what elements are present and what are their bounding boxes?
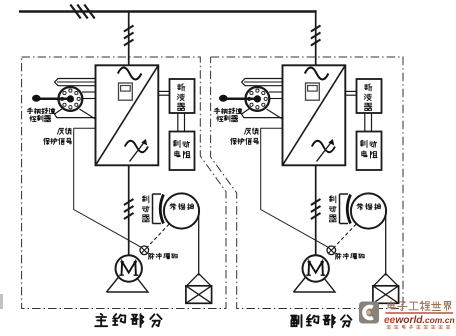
logo swirl <box>364 307 373 319</box>
AC input sine symbol U1 (main hook) <box>118 68 142 80</box>
label: protection signal U2 (aux hook) <box>231 138 259 144</box>
cable wire a U1 (main hook) <box>57 81 96 83</box>
cable flag upper U2 (aux hook) <box>242 79 283 86</box>
connector pins U2 (aux hook) <box>248 89 268 109</box>
encoder coupling dashed line U2 (aux hook) <box>333 211 369 249</box>
hook block box U2 (aux hook) <box>373 286 399 304</box>
label: protection signal U1 (main hook) <box>44 138 72 144</box>
three-phase marks on bus <box>70 5 94 19</box>
label: brake U2 (aux hook) <box>329 196 336 222</box>
three-phase marks on motor feed U2 (aux hook) <box>311 199 321 219</box>
inverter diagonal divider U1 (main hook) <box>96 65 159 165</box>
connector center pin U2 (aux hook) <box>254 96 260 102</box>
wire: inverter to chopper (double) U1 (main hook) <box>158 91 169 95</box>
motor letter M U1 (main hook) <box>119 262 138 275</box>
svg-text:eeworld.com.cn: eeworld.com.cn <box>384 315 455 326</box>
hook hanger triangle U2 (aux hook) <box>374 274 398 286</box>
cable flag lower U1 (main hook) <box>55 108 97 117</box>
label: braking resistor U1 (main hook) <box>173 140 190 158</box>
cable wire diagonal U1 (main hook) <box>80 109 97 120</box>
cable wire b U2 (aux hook) <box>269 91 283 93</box>
caption: main hook section <box>95 314 161 327</box>
label: brake U1 (main hook) <box>142 196 149 222</box>
label: feedback U1 (main hook) <box>58 128 72 134</box>
braking resistor box U2 (aux hook) <box>357 132 382 171</box>
label: chopper U1 (main hook) <box>177 84 185 111</box>
wire: feedback/protection signal path U1 (main hook) <box>74 128 142 247</box>
wire: drop to aux-hook inverter <box>315 10 317 65</box>
chopper unit box U2 (aux hook) <box>357 79 382 113</box>
terminal dot of speed controller U2 (aux hook) <box>219 95 228 102</box>
scan artifact at left edge <box>0 294 3 309</box>
motor stand U1 (main hook) <box>107 266 149 292</box>
logo slogan row <box>387 325 450 329</box>
motor stand U2 (aux hook) <box>294 266 336 292</box>
connector pins U1 (main hook) <box>61 89 81 109</box>
inverter/VFD box U2 (aux hook) <box>283 65 346 165</box>
connector plug circle U1 (main hook) <box>59 87 83 111</box>
wire: controller lead U2 (aux hook) <box>223 98 257 101</box>
cable wire b U1 (main hook) <box>82 91 96 93</box>
logo red underline <box>386 312 454 313</box>
motor letter M U2 (aux hook) <box>306 262 325 275</box>
label: braking resistor U2 (aux hook) <box>360 140 377 158</box>
logo square <box>359 302 379 324</box>
brake shoe arc U2 (aux hook) <box>347 195 350 224</box>
wire: three-phase power bus <box>19 10 317 12</box>
brake bracket U2 (aux hook) <box>340 194 349 224</box>
wire: rope from drum U1 (main hook) <box>198 211 200 276</box>
label: hoist shaft U2 (aux hook) <box>357 203 381 210</box>
hoist drum circle U2 (aux hook) <box>351 193 386 228</box>
brake shoe arc U1 (main hook) <box>160 195 163 224</box>
three-phase marks on motor feed U1 (main hook) <box>124 199 134 219</box>
inverter/VFD box U1 (main hook) <box>96 65 159 165</box>
motor circle U1 (main hook) <box>116 255 142 281</box>
pulse encoder circle U1 (main hook) <box>140 246 149 255</box>
wire: drop to main-hook inverter <box>128 12 130 66</box>
cable flag upper U1 (main hook) <box>55 79 96 86</box>
encoder coupling dashed line U1 (main hook) <box>146 211 182 249</box>
label: hand-lever speed controller U1 (main hook) <box>27 108 55 122</box>
wire: rope from drum U2 (aux hook) <box>385 211 387 276</box>
wire: chopper to resistor (double) U1 (main hook) <box>178 113 185 132</box>
terminal dot of speed controller U1 (main hook) <box>32 95 41 102</box>
cable wire diagonal U2 (aux hook) <box>267 109 284 120</box>
enclosure: main hook section (dashed) <box>22 57 226 309</box>
brake bracket U1 (main hook) <box>153 194 162 224</box>
cable flag lower U2 (aux hook) <box>242 108 284 117</box>
wire: inverter output to motor U1 (main hook) <box>128 165 130 255</box>
wire: inverter output to motor U2 (aux hook) <box>315 165 317 255</box>
hoist drum circle U1 (main hook) <box>164 193 199 228</box>
three-phase marks on aux drop <box>311 26 321 46</box>
caption: aux hook section <box>291 315 351 327</box>
inverter diagonal divider U2 (aux hook) <box>283 65 346 165</box>
wire: inverter to chopper (double) U2 (aux hook) <box>345 91 356 95</box>
three-phase marks on main drop <box>124 26 134 46</box>
keypad panel on inverter U2 (aux hook) <box>306 83 320 100</box>
cable wire center U2 (aux hook) <box>269 98 283 100</box>
label: pulse encoder U1 (main hook) <box>148 253 177 259</box>
wire: controller lead U1 (main hook) <box>36 98 70 101</box>
logo chinese title <box>388 301 451 311</box>
pulse encoder circle U2 (aux hook) <box>327 246 336 255</box>
braking resistor box U1 (main hook) <box>170 132 195 171</box>
keypad panel on inverter U1 (main hook) <box>119 83 133 100</box>
wire: feedback/protection signal path U2 (aux hook) <box>261 128 329 247</box>
hook hanger triangle U1 (main hook) <box>187 274 211 286</box>
logo eeworld text <box>384 315 455 326</box>
label: pulse encoder U2 (aux hook) <box>335 253 364 259</box>
chopper unit box U1 (main hook) <box>170 79 195 113</box>
connector plug circle U2 (aux hook) <box>246 87 270 111</box>
wire: chopper to resistor (double) U2 (aux hook) <box>365 113 372 132</box>
cable wire center U1 (main hook) <box>82 98 96 100</box>
label: hand-lever speed controller U2 (aux hook) <box>214 108 242 122</box>
AC input sine symbol U2 (aux hook) <box>305 68 329 80</box>
connector center pin U1 (main hook) <box>67 96 73 102</box>
motor circle U2 (aux hook) <box>303 255 329 281</box>
label: hoist shaft U1 (main hook) <box>170 203 194 210</box>
variable-frequency output symbol U2 (aux hook) <box>312 139 335 162</box>
variable-frequency output symbol U1 (main hook) <box>125 139 148 162</box>
cable wire a U2 (aux hook) <box>244 81 283 83</box>
label: chopper U2 (aux hook) <box>364 84 372 111</box>
hook block box U1 (main hook) <box>186 286 212 304</box>
label: feedback U2 (aux hook) <box>245 128 259 134</box>
enclosure: aux hook section (dashed) <box>211 57 403 309</box>
